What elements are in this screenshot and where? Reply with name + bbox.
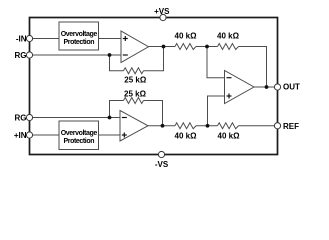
wire bottom 40k to REF pin [239, 125, 277, 127]
wire overvoltage box to A2 + input [99, 134, 121, 136]
wire RG (bottom) to A2 - input [31, 117, 120, 119]
svg-text:-VS: -VS [155, 160, 169, 169]
wire -IN pin to overvoltage box [31, 38, 59, 40]
wire bottom node up to A3 + input [208, 96, 225, 126]
wire A3 output to OUT pin [254, 86, 276, 88]
resistor 25 kOhm (A2 feedback) [124, 98, 144, 104]
svg-text:Protection: Protection [63, 39, 94, 46]
pin REF [274, 123, 280, 129]
wire RG (top) to A1 - input [31, 54, 121, 56]
wire A1 feedback loop left/bottom/right [110, 55, 124, 71]
pin OUT [274, 84, 280, 90]
svg-text:40 kΩ: 40 kΩ [217, 32, 240, 41]
pin +IN [26, 132, 32, 138]
device outline (package border) [30, 18, 278, 155]
junction dot A1 output [162, 45, 166, 49]
overvoltage protection box (top) [59, 22, 99, 50]
svg-text:OUT: OUT [283, 82, 300, 91]
svg-text:Overvoltage: Overvoltage [61, 130, 98, 137]
svg-text:40 kΩ: 40 kΩ [175, 32, 198, 41]
pin RG top [26, 52, 32, 58]
wire A1 feedback to output node [144, 47, 164, 71]
svg-text:Overvoltage: Overvoltage [61, 31, 98, 38]
resistor 40 kOhm (top left) [175, 44, 196, 50]
svg-text:25 kΩ: 25 kΩ [124, 89, 147, 98]
junction dot RG bottom / feedback [108, 116, 112, 120]
wire overvoltage box to A1 + input [99, 38, 122, 40]
resistor 40 kOhm (bottom right) [218, 123, 239, 129]
svg-text:REF: REF [283, 122, 299, 131]
wire between bottom 40k resistors [196, 125, 218, 127]
svg-text:40 kΩ: 40 kΩ [218, 132, 241, 141]
svg-text:Protection: Protection [63, 138, 94, 145]
svg-text:25 kΩ: 25 kΩ [124, 75, 147, 84]
wire between top 40k resistors [196, 46, 218, 48]
resistor 40 kOhm (bottom left) [175, 123, 196, 129]
resistor 25 kOhm (A1 feedback) [124, 68, 144, 74]
wire A1 output [149, 46, 176, 48]
pin +VS [160, 14, 166, 20]
wire A2 feedback loop left/top/right [110, 101, 124, 118]
junction dot bottom 40k middle node [206, 124, 210, 128]
junction dot RG top / feedback [108, 53, 112, 57]
op-amp A1 (top) [121, 31, 149, 63]
junction dot A3 output / feedback [265, 85, 269, 89]
wire top 40k to A3 output node (feedback) [239, 47, 267, 88]
svg-text:+IN: +IN [14, 131, 27, 140]
op-amp A2 (bottom) [120, 111, 148, 142]
overvoltage protection box (bottom) [59, 121, 99, 150]
svg-text:RG: RG [15, 51, 27, 60]
wire A2 output [148, 125, 175, 127]
junction dot top 40k middle node [205, 45, 209, 49]
pin RG bottom [26, 114, 32, 120]
op-amp A3 (output) [225, 71, 255, 104]
resistor 40 kOhm (top right) [218, 44, 239, 50]
svg-text:40 kΩ: 40 kΩ [175, 132, 198, 141]
svg-text:+VS: +VS [154, 7, 170, 16]
pin -VS [158, 151, 164, 157]
wire A2 feedback to output node [144, 101, 163, 126]
wire +IN pin to overvoltage box [31, 134, 59, 136]
svg-text:-IN: -IN [16, 34, 27, 43]
wire top node down to A3 - input [207, 47, 225, 78]
pin -IN [26, 35, 32, 41]
junction dot A2 output [161, 124, 165, 128]
svg-text:RG: RG [15, 113, 27, 122]
